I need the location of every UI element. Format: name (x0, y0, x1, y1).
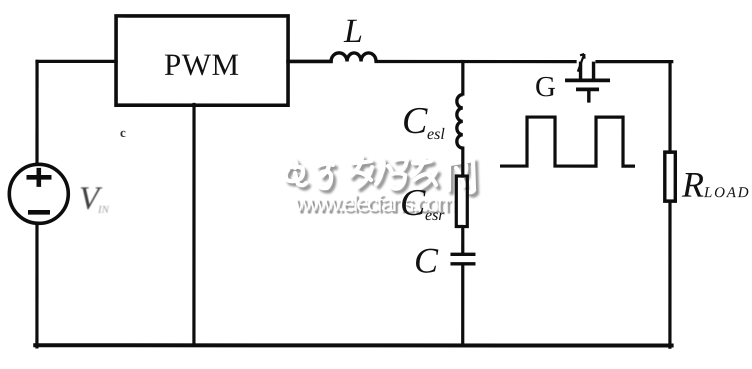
wire top-left horizontal from source branch to PWM (37, 60, 116, 63)
voltage source VIN circle (9, 164, 68, 223)
switch channel bar (565, 78, 610, 82)
gate drive square wave (500, 117, 635, 166)
wire left vertical lower (source to bottom rail) (35, 225, 38, 347)
svg-text:G: G (535, 71, 556, 103)
svg-text:L: L (343, 13, 363, 50)
watermark 电子发烧友网 (white top layer) (286, 157, 474, 192)
watermark 电子发烧友网 (gray shadow layer) (289, 160, 477, 195)
voltage source minus sign (28, 210, 50, 215)
switch source leg (592, 62, 595, 79)
inductance C_esl coil (457, 95, 463, 149)
wire switch to right corner (597, 60, 672, 63)
wire inductor to switch (376, 60, 575, 63)
svg-text:esr: esr (425, 207, 445, 224)
wire capacitor branch upper (461, 62, 464, 94)
svg-text:C: C (414, 241, 439, 281)
svg-text:PWM: PWM (164, 47, 240, 82)
svg-text:C: C (400, 182, 426, 224)
transistor switch G (MOSFET) (565, 54, 610, 103)
wire C to bottom rail (461, 265, 464, 345)
wire right vertical upper (to R_LOAD) (668, 62, 671, 152)
switch gate stem (587, 89, 590, 102)
label V_IN (79, 181, 110, 217)
wire PWM bottom to rail (192, 104, 195, 345)
switch gate bar (576, 87, 599, 91)
svg-text:C: C (402, 100, 428, 142)
svg-text:IN: IN (97, 204, 110, 216)
inductor L (331, 53, 376, 62)
resistor C_esr box (456, 176, 467, 227)
capacitor C plates (450, 254, 475, 264)
wire C_esl to C_esr (461, 148, 464, 176)
switch arrow (578, 54, 585, 72)
wire C_esr to C plates (461, 227, 464, 254)
svg-text:c: c (120, 125, 126, 140)
voltage source plus sign (26, 168, 51, 187)
wire PWM output to inductor (288, 60, 331, 64)
wire right vertical lower (R_LOAD to bottom rail) (668, 201, 671, 347)
PWM block U1 (116, 16, 288, 105)
resistor R_LOAD box (665, 152, 676, 201)
svg-text:esl: esl (427, 126, 445, 143)
svg-text:R: R (681, 165, 704, 205)
svg-text:LOAD: LOAD (703, 185, 750, 201)
switch drain leg (579, 62, 582, 80)
wire left vertical upper (source to top wire) (35, 61, 38, 162)
wire bottom rail (35, 343, 671, 347)
